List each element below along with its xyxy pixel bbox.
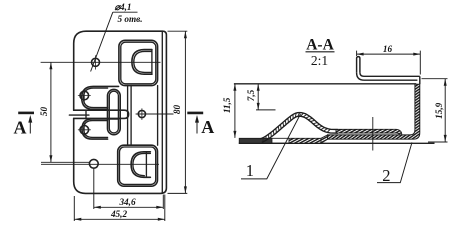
top tab inner — [134, 51, 152, 72]
dimension 80 — [168, 31, 188, 193]
left base strip hatched segment — [289, 138, 321, 143]
hole right — [138, 110, 145, 117]
top cutout outer — [119, 40, 158, 85]
hole lower-left — [80, 126, 89, 135]
dimension 16 — [357, 51, 421, 75]
hole upper-left ticks — [78, 89, 90, 102]
dimension 45.2 — [74, 195, 165, 222]
svg-text:45,2: 45,2 — [110, 209, 127, 219]
top visible edge line — [234, 83, 416, 85]
svg-text:A-A: A-A — [306, 37, 334, 54]
plate outline — [74, 31, 167, 193]
left base strip open segment — [272, 138, 289, 143]
svg-text:5 отв.: 5 отв. — [118, 14, 143, 24]
dimension 34.6 — [94, 169, 164, 209]
hole top center tick — [95, 56, 97, 70]
dimension 15.9 — [422, 79, 448, 142]
middle tongue inner edge — [85, 110, 87, 118]
bottom tab inner — [133, 153, 151, 175]
section title underline — [306, 51, 335, 53]
dimension 50 — [41, 62, 90, 162]
contact bump inner line — [262, 116, 338, 142]
svg-text:15,9: 15,9 — [434, 102, 444, 118]
base raised strip and wall — [328, 84, 420, 139]
svg-text:⌀4,1: ⌀4,1 — [115, 2, 132, 12]
svg-text:16: 16 — [383, 44, 393, 54]
bottom tab outer — [131, 152, 150, 178]
lower finger inner — [84, 121, 108, 138]
svg-text:50: 50 — [39, 107, 49, 117]
hole top (d4.1) — [92, 58, 100, 66]
left base strip solid segment — [239, 138, 272, 143]
svg-text:34,6: 34,6 — [118, 197, 135, 207]
section mark right — [187, 113, 203, 134]
bottom cutout inner — [120, 147, 156, 184]
svg-text:80: 80 — [172, 105, 182, 115]
center line through bottom hole — [41, 163, 159, 165]
upper finger inner — [83, 88, 107, 108]
top tab outer — [132, 50, 152, 75]
vertical slot inner — [109, 91, 118, 133]
middle small tongue — [74, 110, 129, 118]
center line through right hole — [136, 113, 174, 115]
hole right center tick — [141, 109, 143, 120]
base step up — [321, 135, 328, 143]
bottom cutout outer — [118, 145, 158, 186]
contact bump hatch ticks — [263, 113, 330, 142]
bottom visible edge line — [239, 142, 435, 144]
svg-text:A: A — [201, 117, 214, 137]
bottom tab fold line — [145, 152, 147, 178]
top tab fold line — [151, 50, 153, 75]
lower finger outer — [82, 119, 119, 139]
channel fold lines between cutouts — [128, 86, 158, 146]
hook profile — [357, 57, 420, 85]
top cutout inner — [121, 42, 156, 84]
contact bump outer line — [260, 113, 338, 139]
section mark left — [18, 113, 34, 134]
middle tongue mid line — [69, 114, 89, 116]
center line through top hole — [41, 61, 161, 63]
plate right fold line — [161, 32, 163, 194]
svg-text:7,5: 7,5 — [246, 89, 256, 101]
upper strip (spring tail) — [336, 129, 402, 135]
svg-text:11,5: 11,5 — [222, 97, 232, 113]
svg-text:1: 1 — [246, 161, 254, 180]
left view group — [69, 31, 166, 193]
svg-text:2:1: 2:1 — [311, 53, 328, 68]
dimension 7.5 — [256, 84, 276, 110]
center lines left view — [41, 62, 174, 164]
section vertical edge line — [372, 117, 374, 151]
upper finger outer — [82, 86, 119, 109]
vertical slot outer — [108, 89, 121, 134]
hole bottom — [89, 159, 98, 168]
svg-text:A: A — [14, 118, 27, 138]
hole upper-left — [80, 91, 89, 100]
dimension 11.5 — [234, 84, 236, 138]
hole callout leader — [91, 12, 138, 71]
hole lower-left ticks — [78, 124, 90, 137]
